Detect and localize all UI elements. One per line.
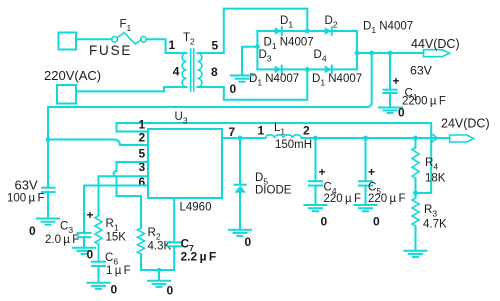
ground (R3) [405, 251, 427, 257]
resistor R3 4.7K [412, 193, 419, 250]
svg-text:8: 8 [211, 65, 218, 79]
fuse F1 [112, 33, 147, 44]
svg-text:DIODE: DIODE [255, 185, 292, 197]
node pin2 junction [46, 137, 51, 142]
diode D5 [235, 138, 246, 230]
transformer T2 core [190, 49, 192, 91]
svg-text:5: 5 [212, 38, 219, 52]
wire top rail to bridge [224, 9, 307, 31]
svg-text:1 µ F: 1 µ F [106, 265, 131, 277]
capacitor C4 220uF [309, 138, 322, 205]
svg-text:+: + [393, 74, 400, 88]
ground (D5) [229, 230, 251, 236]
wire J2 to T2 pin 4 [76, 87, 187, 91]
svg-text:2: 2 [303, 124, 310, 138]
capacitor C3 2.0uF [78, 233, 91, 247]
transformer T2 primary winding [182, 53, 186, 87]
svg-text:63V: 63V [15, 178, 38, 193]
ground (C3) [73, 248, 95, 254]
wire pin5 stub [114, 162, 148, 196]
node bottom junction [305, 67, 310, 72]
svg-text:44V(DC): 44V(DC) [411, 37, 460, 51]
wire bridge output rail 63V [357, 52, 424, 54]
wire 63V down-left long rail [48, 53, 372, 188]
node bridge output junction [355, 51, 360, 56]
ground (C5) [355, 205, 377, 211]
wire bridge AC left to ground [242, 47, 257, 76]
node D5 tap [238, 136, 243, 141]
bridge rectangle wire [257, 31, 357, 69]
svg-text:7: 7 [229, 125, 236, 139]
svg-text:0: 0 [167, 284, 174, 298]
svg-text:150mH: 150mH [275, 139, 312, 151]
svg-text:63V: 63V [410, 64, 433, 78]
wire pin3 stub to R1 [99, 176, 149, 215]
svg-text:220V(AC): 220V(AC) [44, 68, 101, 83]
wire pin7 output [222, 137, 265, 139]
wire fuse to T2 pin 1 [146, 39, 186, 53]
svg-text:2.2 µ F: 2.2 µ F [181, 250, 217, 264]
svg-text:15K: 15K [106, 232, 127, 244]
wire 24V rail [301, 137, 449, 139]
ground (C6) [88, 283, 110, 289]
node 63V junction b [388, 51, 393, 56]
ground (R2 C7) [148, 270, 170, 287]
svg-text:0: 0 [29, 224, 36, 238]
svg-text:+: + [368, 165, 375, 179]
svg-text:5: 5 [139, 147, 146, 161]
node bridge left junction [255, 44, 260, 49]
svg-text:1: 1 [139, 118, 146, 132]
svg-text:0: 0 [398, 106, 405, 120]
op-amp U3 box L4960 [148, 129, 222, 198]
wire T2 pin5 up to top rail [198, 9, 224, 53]
svg-text:0: 0 [245, 235, 252, 249]
terminal square J1 (top input) [59, 33, 77, 50]
node 63V junction a [369, 51, 374, 56]
diode D4 [325, 66, 332, 74]
svg-text:4: 4 [173, 64, 180, 78]
svg-text:+: + [319, 165, 326, 179]
svg-text:0: 0 [111, 283, 118, 297]
svg-text:18K: 18K [425, 173, 446, 185]
wire R1 R2 tie [117, 195, 142, 197]
svg-text:24V(DC): 24V(DC) [441, 117, 490, 131]
terminal square J2 (bottom input) [57, 85, 76, 104]
connector arrow 24V [432, 134, 438, 142]
inductor L1 150mH [265, 135, 301, 138]
svg-text:2200 µ F: 2200 µ F [402, 96, 446, 108]
svg-text:1: 1 [169, 38, 176, 52]
connector tag 44V(DC) [424, 50, 450, 57]
wire pin6 stub to C3 [84, 186, 148, 233]
ground (C2) [37, 219, 59, 225]
ground (bridge left) [231, 76, 253, 82]
transformer T2 secondary winding [198, 53, 202, 87]
wire T2 pin8 to 0 node [198, 69, 308, 99]
capacitor C7 2.2uF [168, 198, 182, 270]
diode D2 [325, 27, 332, 35]
svg-text:0: 0 [321, 215, 328, 229]
wire pin2 of U3 to 63V rail [48, 140, 148, 146]
diode D1 [275, 27, 282, 35]
node C4 tap [313, 136, 318, 141]
diode D3 [275, 66, 282, 74]
svg-text:L4960: L4960 [180, 202, 212, 214]
svg-text:0: 0 [87, 248, 94, 262]
svg-text:4.7K: 4.7K [423, 219, 447, 231]
ground (C4) [305, 205, 327, 211]
resistor R2 4.3K [138, 196, 145, 270]
node R4 R3 junction [413, 191, 418, 196]
svg-text:2: 2 [139, 131, 146, 145]
wire feedback rail pin1 [117, 123, 432, 193]
capacitor C1 2200uF [384, 53, 397, 107]
capacitor C5 220uF [359, 138, 372, 205]
node top junction [305, 29, 310, 34]
svg-text:1: 1 [258, 124, 265, 138]
resistor R1 15K [95, 216, 102, 262]
node C5 tap [363, 136, 368, 141]
wire J1 to fuse [76, 38, 112, 40]
svg-text:2.0 µ F: 2.0 µ F [45, 234, 79, 246]
ground (C1) [379, 108, 402, 113]
svg-text:220 µ F: 220 µ F [368, 193, 405, 205]
capacitor C6 1uF [92, 262, 105, 283]
svg-text:0: 0 [373, 215, 380, 229]
wire R2 C7 bottom rail [141, 269, 174, 271]
resistor R4 18K [412, 138, 419, 193]
svg-text:0: 0 [230, 82, 237, 96]
connector tag 24V(DC) [450, 135, 474, 142]
node R4 tap [413, 136, 418, 141]
node bottom rail ground tap [157, 268, 161, 272]
svg-text:+: + [87, 208, 94, 222]
capacitor C2 100uF [42, 188, 55, 218]
svg-text:100 µ F: 100 µ F [7, 193, 44, 205]
svg-text:220 µ F: 220 µ F [324, 193, 361, 205]
svg-text:FUSE: FUSE [89, 43, 132, 58]
